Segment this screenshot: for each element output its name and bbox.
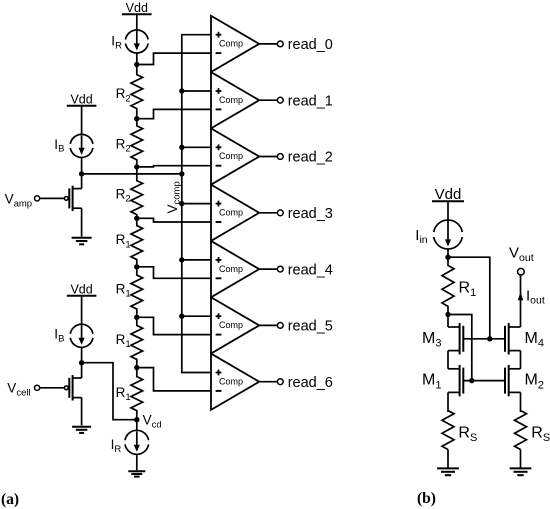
ladder node 6 [134,365,139,370]
label IR top [111,34,122,52]
label Iin [415,227,428,246]
label R2 #2 [116,137,131,155]
resistor R1 ladder #7 [131,368,143,420]
svg-text:Comp: Comp [219,320,243,330]
node R1 bottom [445,312,450,317]
label M1 [422,372,441,392]
label Vcomp [165,181,183,213]
svg-text:Vcell: Vcell [7,380,30,398]
wire bus to comp3 plus [182,146,211,148]
svg-text:R2: R2 [116,187,131,205]
current source IB (lower) [70,324,93,347]
wire M3-M4 gate line [463,338,505,340]
ladder node 3 [134,216,139,221]
svg-text:Iin: Iin [415,227,428,246]
ladder node 5 [134,315,139,320]
wire M1 source to RS [447,392,449,412]
label Vcell [7,380,30,398]
op-amp comparator U5 [211,241,259,297]
svg-text:R1: R1 [116,282,131,300]
label read_0 [288,37,333,53]
op-amp comparator U2 [211,72,259,128]
svg-text:R2: R2 [116,86,131,104]
svg-text:M4: M4 [525,330,544,350]
wire comp7 output [259,381,277,383]
svg-text:Vamp: Vamp [5,191,32,209]
node amp drain upper [79,171,84,176]
resistor R2 ladder #2 [131,119,143,167]
ladder node 2 [134,164,139,169]
svg-text:RS: RS [531,425,550,444]
label R1 #4 [116,232,131,250]
wire Vdd to Iin [447,201,449,220]
wire IB to drain node upper [81,157,83,174]
junction bus comp4 [179,201,184,206]
svg-text:Iout: Iout [526,287,545,306]
resistor R1 ladder #5 [131,267,143,318]
junction gate line M3M4 [487,336,492,341]
op-amp comparator U1 [211,16,259,72]
svg-text:Comp: Comp [219,151,243,161]
Vcomp bus [182,35,211,373]
label read_1 [288,93,333,109]
wire IB to drain node lower [81,347,83,362]
terminal read_3 [277,210,283,216]
terminal read_5 [277,323,283,329]
ladder node 1 [134,116,139,121]
label Vout [509,245,534,264]
svg-text:Comp: Comp [219,376,243,386]
wire Vdd to IB upper [81,106,83,135]
wire Iin node to M3 M4 gates [448,257,490,339]
wire bus to comp5 plus [182,259,211,261]
svg-text:IR: IR [111,34,122,52]
svg-text:M3: M3 [422,330,441,350]
svg-text:R1: R1 [116,332,131,350]
svg-text:read_1: read_1 [288,93,333,109]
wire drain lower [81,363,83,378]
wire RS right to ground [520,450,522,468]
wire comp6 output [259,324,277,326]
tap wire node1 to comp2 minus [137,109,211,118]
wire RS left to ground [447,450,449,468]
resistor R1 ladder #4 [131,218,143,266]
label M2 [525,372,544,392]
transistor M3 [448,323,463,354]
wire comp2 output [259,99,277,101]
Vdd rail (b) [432,186,464,203]
wire R1 bottom to M1 M2 gates [448,315,472,381]
Vdd rail (lower amp) [67,283,97,297]
transistor M2 [505,365,521,396]
svg-text:R1: R1 [116,385,131,403]
svg-text:read_4: read_4 [288,262,333,278]
label R1 #7 [116,385,131,403]
wire Vout to M4 drain [520,275,522,327]
tap wire node5 to comp6 minus [137,317,211,334]
wire Vcd to IR bottom [136,420,138,431]
wire lower amp to Vcd [82,363,137,420]
svg-text:Comp: Comp [219,264,243,274]
label (b) [417,490,436,507]
transistor M4 [505,323,521,354]
label Iout [526,287,545,306]
wire M3 drain [447,315,449,328]
label R1 #5 [116,282,131,300]
svg-text:Comp: Comp [219,39,243,49]
tap wire node6 to comp7 minus [137,368,211,391]
wire bus to comp4 plus [182,203,211,205]
wire drain upper [81,174,83,189]
label IB lower [54,327,64,345]
ground (b left) [437,468,459,475]
resistor R1 ladder #6 [131,317,143,367]
svg-text:IR: IR [111,437,122,455]
wire comp3 output [259,156,277,158]
svg-text:read_5: read_5 [288,319,333,335]
svg-text:Vdd: Vdd [70,283,92,297]
svg-text:IB: IB [54,327,64,345]
wire bus to comp6 plus [182,315,211,317]
wire M4 source to M2 drain [520,351,522,369]
svg-text:Comp: Comp [219,95,243,105]
label M4 [525,330,544,350]
wire comp1 output [259,43,277,45]
svg-text:M2: M2 [525,372,544,392]
label Vamp [5,191,32,209]
label M3 [422,330,441,350]
ground (lower amp) [72,427,91,433]
label (a) [1,491,19,508]
svg-text:Vcd: Vcd [143,413,162,431]
wire amp output to Vcomp bus [82,173,182,175]
wire Vdd to IB lower [81,296,83,325]
wire M3 source to M1 drain [447,351,449,369]
junction bus amp wire [179,171,184,176]
label RS right [531,425,550,444]
arrow Iout [518,292,523,300]
Vdd rail (upper amp) [67,93,97,107]
resistor RS (right) [515,411,527,450]
svg-text:Vout: Vout [509,245,534,264]
terminal Vout [518,268,525,275]
wire Iin to node [447,249,449,257]
current source IR (bottom) [125,430,149,454]
svg-text:RS: RS [458,425,477,444]
wire IR to ladder top node [136,53,138,65]
tap wire node3 to comp4 minus [137,218,211,222]
svg-text:R2: R2 [116,137,131,155]
svg-text:read_0: read_0 [288,37,333,53]
wire IR bottom to ground [136,455,138,471]
op-amp comparator U7 [211,354,259,410]
current source Iin [434,220,463,249]
wire M2 source to RS [520,392,522,412]
terminal read_2 [277,154,283,160]
junction bus comp3 [179,145,184,150]
terminal read_6 [277,379,283,385]
op-amp comparator U3 [211,128,259,184]
label RS left [458,425,477,444]
label IB upper [54,137,64,155]
wire comp5 output [259,268,277,270]
label R2 #1 [116,86,131,104]
ladder node 0 [134,62,139,67]
svg-text:(a): (a) [1,491,19,508]
label Vcd [143,413,162,431]
ladder node 4 [134,264,139,269]
wire M1-M2 gate line [463,380,505,382]
svg-text:M1: M1 [422,372,441,392]
ground (b right) [510,468,532,475]
svg-text:read_6: read_6 [288,375,333,391]
resistor R1 (b) [442,257,454,314]
transistor M lower (Vcell input) [35,375,82,400]
tap wire node2 to comp3 minus [137,166,211,167]
label read_3 [288,206,333,222]
wire source lower [81,398,83,426]
terminal read_1 [277,97,283,103]
node Vcd [134,417,139,422]
svg-text:Vcomp: Vcomp [165,181,183,213]
current source IR (top) [125,30,148,53]
svg-text:Comp: Comp [219,208,243,218]
junction bus comp5 [179,257,184,262]
label read_6 [288,375,333,391]
svg-text:read_2: read_2 [288,150,333,166]
wire comp4 output [259,212,277,214]
svg-text:IB: IB [54,137,64,155]
transistor M1 [448,365,463,396]
ground (bottom IR) [128,471,145,476]
svg-text:R1: R1 [459,280,477,299]
svg-text:(b): (b) [417,490,436,507]
resistor RS (left) [442,411,454,450]
svg-text:R1: R1 [116,232,131,250]
junction bus comp2 [179,88,184,93]
svg-text:Vdd: Vdd [70,93,92,107]
resistor R2 ladder #1 [131,65,143,119]
transistor M upper (Vamp input) [35,186,82,211]
terminal read_0 [277,41,283,47]
wire source upper [81,208,83,236]
label R1 (b) [459,280,477,299]
wire Vdd to IR [136,14,138,30]
svg-text:read_3: read_3 [288,206,333,222]
label IR bottom [111,437,122,455]
current source IB (upper) [70,134,93,157]
op-amp comparator U4 [211,185,259,241]
label R2 #3 [116,187,131,205]
junction gate line M1M2 [469,378,474,383]
resistor R2 ladder #3 [131,167,143,218]
svg-text:Vdd: Vdd [126,1,148,15]
label read_4 [288,262,333,278]
node Iin/R1 top [445,255,450,260]
label read_5 [288,319,333,335]
tap wire node0 to comp1 minus [137,53,211,64]
terminal read_4 [277,266,283,272]
label R1 #6 [116,332,131,350]
ground (upper amp) [72,238,92,245]
tap wire node4 to comp5 minus [137,267,211,279]
node amp drain lower [79,360,84,365]
op-amp comparator U6 [211,297,259,353]
wire bus to comp2 plus [182,90,211,92]
Vdd rail (ladder top) [122,1,152,15]
junction bus comp6 [179,314,184,319]
label read_2 [288,150,333,166]
